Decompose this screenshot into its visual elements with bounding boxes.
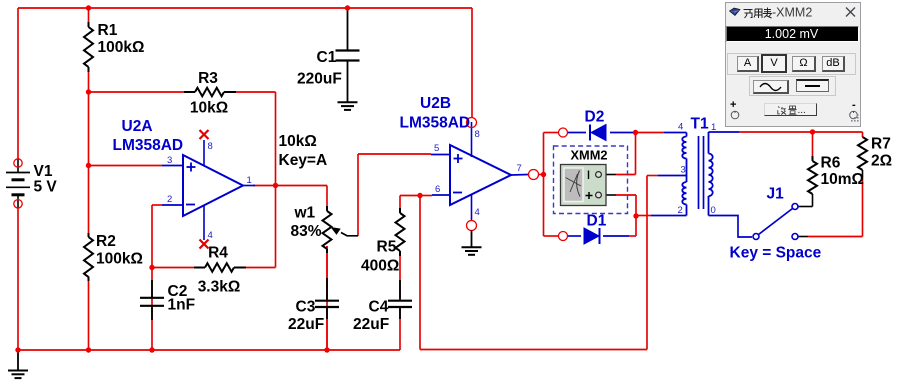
svg-text:4: 4: [475, 207, 480, 218]
panel plus minus terminals: [730, 99, 736, 111]
svg-text:7: 7: [517, 163, 522, 174]
label XMM2: [571, 148, 608, 163]
svg-text:22uF: 22uF: [288, 316, 324, 333]
transformer T1 secondary coil: [709, 132, 713, 216]
wire D2 to T1 pin4, junction to meter: [568, 132, 687, 134]
diode D2 (points left): [590, 125, 606, 141]
label T1: [691, 116, 709, 133]
wire bottom ground rail: [18, 349, 400, 351]
svg-text:XMM2: XMM2: [571, 148, 608, 163]
capacitor C2: [140, 280, 164, 320]
transformer T1 primary coil: [682, 133, 686, 216]
svg-text:100kΩ: 100kΩ: [96, 251, 143, 268]
transformer T1 tap wire: [658, 175, 687, 177]
switch J1: [753, 204, 798, 240]
label R4 3.3k: [198, 245, 241, 296]
svg-text:U2B: U2B: [420, 95, 451, 112]
svg-text:10kΩ: 10kΩ: [279, 133, 317, 150]
panel settings button: [764, 103, 817, 116]
wire U2A output to w1: [253, 186, 327, 211]
wire C3 leads: [326, 246, 328, 350]
svg-text:6: 6: [435, 184, 440, 195]
svg-text:3: 3: [167, 155, 172, 166]
battery V1: [6, 159, 30, 208]
svg-text:D2: D2: [585, 109, 605, 126]
svg-text:R2: R2: [96, 233, 116, 250]
wire R7 leads: [862, 132, 864, 237]
wire to D2: [544, 132, 559, 134]
svg-text:3.3kΩ: 3.3kΩ: [198, 279, 241, 296]
svg-text:J1: J1: [767, 186, 785, 203]
capacitor C4: [388, 280, 412, 319]
potentiometer w1 wiper arrow: [331, 227, 359, 236]
svg-text:C4: C4: [369, 299, 389, 316]
D2 terminal circle: [559, 128, 568, 137]
svg-text:R1: R1: [98, 22, 118, 39]
label R7 2ohm: [871, 136, 892, 170]
wire U2B pin8 to V+: [471, 8, 473, 117]
label R3 10k: [190, 70, 228, 117]
wire detector left vertical D2-D1: [543, 133, 545, 237]
svg-text:-XMM2: -XMM2: [772, 6, 812, 20]
svg-text:2: 2: [678, 205, 683, 216]
svg-text:5: 5: [434, 143, 439, 154]
panel group boxes: [727, 53, 856, 75]
wire node A to R3: [89, 91, 186, 93]
U2B pin terminals circles: [467, 118, 539, 231]
label U2B LM358AD: [400, 95, 471, 132]
svg-text:R7: R7: [871, 136, 891, 153]
label w1 83%: [291, 205, 322, 241]
op-amp U2B pin stubs: [431, 122, 529, 221]
svg-text:V1: V1: [34, 163, 53, 180]
svg-text:LM358AD: LM358AD: [400, 115, 471, 132]
svg-text:400Ω: 400Ω: [361, 258, 399, 275]
svg-text:C1: C1: [317, 49, 337, 66]
panel title bar: [726, 3, 860, 21]
svg-text:D1: D1: [587, 213, 607, 230]
label R5 400: [361, 239, 399, 275]
svg-text:R3: R3: [198, 70, 218, 87]
svg-text:4: 4: [208, 230, 213, 241]
D1 terminal circle: [559, 232, 568, 241]
svg-text:22uF: 22uF: [353, 316, 389, 333]
label U2A LM358AD: [113, 118, 184, 154]
svg-text:10mΩ: 10mΩ: [821, 171, 864, 188]
svg-text:Key = Space: Key = Space: [730, 245, 822, 262]
resistor R3: [184, 88, 236, 96]
svg-text:U2A: U2A: [122, 118, 153, 135]
resistor R5: [396, 208, 405, 256]
svg-text:2: 2: [167, 194, 172, 205]
label C3 22uF: [288, 299, 324, 334]
svg-text:3: 3: [681, 165, 686, 176]
panel display: [726, 26, 859, 42]
svg-text:R5: R5: [377, 239, 397, 256]
svg-text:1: 1: [711, 122, 716, 133]
resistor R2: [84, 233, 93, 281]
potentiometer w1: [323, 206, 332, 253]
wire T1 secondary top to R6/R7: [709, 131, 863, 133]
svg-text:R6: R6: [821, 155, 841, 172]
wire J1 right contact to R7: [798, 236, 863, 238]
resistor R1: [84, 22, 93, 72]
XMM2 meter body: [561, 165, 607, 206]
ground bottom left: [8, 350, 28, 378]
wire bottom right rail up to T1 tap: [647, 176, 658, 350]
capacitor C3: [315, 278, 339, 319]
op-amp U2B: [450, 145, 511, 205]
wire D1 branch: [544, 235, 637, 237]
op-amp U2A pin stubs: [162, 140, 255, 240]
wire U2A pin3 input: [89, 165, 163, 167]
wire T1 secondary bottom to J1: [709, 216, 753, 238]
wire meter minus terminal: [602, 133, 636, 175]
wire R5 top / pin6 node: [400, 196, 432, 211]
label R1 100k: [98, 22, 145, 56]
svg-text:T1: T1: [691, 116, 709, 133]
multimeter panel XMM2: [725, 2, 861, 127]
XMM2 meter terminals: [586, 171, 602, 200]
label R2 100k: [96, 233, 143, 268]
wire R3 right to output node: [235, 92, 276, 186]
battery V1 terminal circles: [14, 159, 22, 208]
svg-text:Key=A: Key=A: [279, 152, 328, 169]
label C1 220uF: [297, 49, 342, 88]
wire w1 bottom to C3 and rail: [326, 246, 328, 350]
svg-text:...: ...: [798, 105, 806, 115]
U2B pin numbers: [434, 129, 522, 218]
wire U2B output to detector node: [539, 174, 544, 176]
wire R6 leads: [798, 132, 813, 207]
label D1: [587, 213, 607, 230]
U2A pin numbers: [167, 141, 252, 241]
resistor R4: [194, 263, 246, 271]
svg-text:2Ω: 2Ω: [871, 153, 892, 170]
wire R1/R2 branch vertical: [88, 8, 90, 350]
svg-text:C3: C3: [296, 299, 316, 316]
svg-text:10kΩ: 10kΩ: [190, 100, 228, 117]
svg-text:0: 0: [711, 205, 716, 216]
label C4 22uF: [353, 299, 389, 334]
panel buttons sine / dc: [753, 80, 789, 94]
svg-text:R4: R4: [208, 245, 228, 262]
svg-text:8: 8: [475, 129, 480, 140]
U2A pin4 pin8 X marks: [200, 130, 209, 249]
svg-text:83%: 83%: [291, 223, 322, 240]
wire R4 feedback: [152, 186, 276, 268]
transformer T1 core: [699, 136, 704, 209]
wire pin6 node down to bottom right rail: [420, 196, 647, 350]
svg-text:1nF: 1nF: [168, 297, 196, 314]
svg-text:LM358AD: LM358AD: [113, 137, 184, 154]
svg-text:4: 4: [678, 122, 683, 133]
wire R5 to C4: [399, 254, 401, 350]
ground C1: [338, 102, 358, 110]
label C2 1nF: [168, 283, 196, 314]
wire meter plus terminal to T1 pin2: [602, 195, 687, 236]
svg-text:w1: w1: [294, 205, 316, 222]
svg-text:100kΩ: 100kΩ: [98, 39, 145, 56]
wire U2A pin2 feedback node: [152, 205, 162, 350]
svg-text:8: 8: [208, 141, 213, 152]
label Key = Space: [730, 245, 822, 262]
panel buttons A V ohm dB: [737, 56, 759, 72]
capacitor C1: [336, 8, 360, 102]
XMM2 dashed box: [554, 146, 628, 214]
label V1: [34, 163, 58, 196]
resistor R6: [808, 156, 817, 194]
svg-text:5 V: 5 V: [34, 179, 58, 196]
label pot 10k Key=A: [279, 133, 328, 169]
resistor R7: [858, 137, 867, 170]
label J1: [767, 186, 785, 203]
diode D1 (points right): [584, 228, 600, 244]
op-amp U2A: [183, 155, 243, 216]
svg-text:220uF: 220uF: [297, 71, 342, 88]
T1 pin numbers: [678, 122, 717, 217]
label R6 10mohm: [821, 155, 864, 189]
svg-text:1: 1: [247, 175, 252, 186]
label D2: [585, 109, 605, 126]
junction dots: [86, 5, 91, 10]
wire top rail V+: [18, 7, 472, 9]
U2B pin4 ground: [462, 231, 482, 255]
wire left vertical to V1: [17, 8, 19, 350]
wire w1 wiper to U2B pin5: [358, 154, 431, 236]
